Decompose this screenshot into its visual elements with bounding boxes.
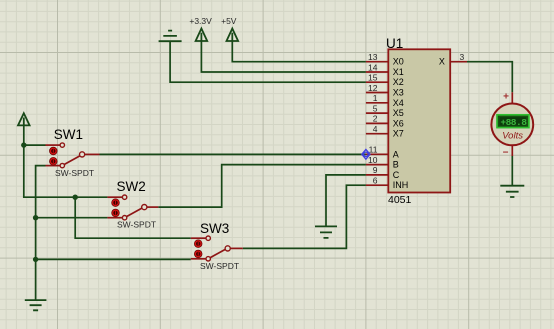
- U1 pin labels: [393, 57, 445, 191]
- junction node SW3 bottom throw: [33, 257, 38, 262]
- svg-text:X3: X3: [393, 88, 404, 98]
- svg-text:+3.3V: +3.3V: [189, 16, 212, 26]
- voltmeter display: [497, 115, 529, 128]
- SW2 bottom throw contact: [122, 216, 126, 220]
- wire SW2 pole to pin B: [158, 165, 366, 208]
- SW1 lever: [64, 156, 79, 164]
- svg-text:SW-SPDT: SW-SPDT: [117, 219, 156, 229]
- SW1 red stubs: [46, 145, 100, 166]
- svg-text:X5: X5: [393, 108, 404, 118]
- wire voltmeter minus to ground: [511, 156, 513, 186]
- svg-text:4051: 4051: [388, 194, 412, 206]
- svg-text:+88.8: +88.8: [500, 117, 527, 128]
- SW1 bottom throw contact: [60, 163, 64, 167]
- SW1 top throw contact: [60, 143, 64, 147]
- SW3 lever: [210, 249, 225, 257]
- SW3 pole contact: [225, 246, 230, 251]
- junction node vertical2 top: [73, 195, 78, 200]
- svg-text:X0: X0: [393, 57, 404, 67]
- SW2 pole contact: [142, 205, 147, 210]
- U1 pin stubs left: [366, 62, 467, 186]
- svg-text:X4: X4: [393, 98, 404, 108]
- wire pin C to ground: [326, 175, 366, 227]
- power arrow +5V: [227, 29, 239, 42]
- svg-text:15: 15: [368, 73, 378, 83]
- svg-text:SW2: SW2: [117, 179, 146, 194]
- SW1 toggle button up: [50, 147, 58, 155]
- U1 pin 3 stub right: [450, 61, 467, 63]
- svg-text:5: 5: [373, 103, 378, 113]
- wire +5V net to X0: [232, 41, 366, 62]
- svg-text:4: 4: [373, 124, 378, 134]
- SW3 toggle button down: [194, 250, 202, 258]
- svg-text:A: A: [393, 149, 399, 159]
- ground (below pin C): [315, 226, 337, 238]
- wire SW1 bottom throw to vertical3: [36, 166, 46, 301]
- wire vertical3 to SW2 bottom throw: [36, 217, 108, 219]
- voltmeter: [491, 92, 533, 159]
- junction node SW2 bottom throw: [33, 215, 38, 220]
- ground (under voltmeter): [500, 186, 524, 197]
- SW2 lever: [127, 208, 142, 216]
- svg-text:+: +: [503, 92, 509, 103]
- junction node SW1 top throw rail: [21, 142, 26, 147]
- SW3 toggle button up: [194, 240, 202, 248]
- svg-text:U1: U1: [386, 36, 403, 51]
- voltmeter body: [491, 104, 533, 146]
- SW1 toggle button down: [50, 158, 58, 166]
- svg-text:SW-SPDT: SW-SPDT: [55, 168, 94, 178]
- wire SW3 pole to pin INH: [243, 185, 366, 248]
- SW2 toggle button up: [112, 199, 120, 207]
- svg-text:Volts: Volts: [502, 131, 523, 142]
- voltmeter red stubs: [511, 92, 513, 156]
- U1 pin numbers: [368, 52, 378, 186]
- wire X output to voltmeter: [467, 62, 512, 92]
- svg-text:INH: INH: [393, 180, 409, 190]
- svg-text:10: 10: [368, 155, 378, 165]
- svg-text:6: 6: [373, 176, 378, 186]
- switch SW3: [191, 221, 243, 271]
- svg-text:1: 1: [373, 93, 378, 103]
- svg-text:X: X: [439, 57, 445, 67]
- SW2 top throw contact: [122, 195, 126, 199]
- wire left power rail vertical to SW1 top throw: [24, 125, 108, 198]
- svg-text:C: C: [393, 170, 400, 180]
- wire +3.3V net to X1: [201, 41, 366, 73]
- svg-text:−: −: [503, 148, 509, 159]
- IC U1 4051: [388, 49, 450, 192]
- wire junction A to SW1 top throw: [24, 144, 46, 146]
- svg-text:2: 2: [373, 114, 378, 124]
- svg-text:X7: X7: [393, 129, 404, 139]
- switch SW1: [46, 127, 100, 178]
- svg-text:13: 13: [368, 52, 378, 62]
- svg-text:X1: X1: [393, 67, 404, 77]
- ground (top, inverted): [159, 31, 182, 42]
- svg-text:SW1: SW1: [54, 127, 83, 142]
- svg-text:3: 3: [460, 52, 465, 62]
- SW2 toggle button down: [112, 209, 120, 217]
- wire SW1 pole to pin A: [100, 153, 366, 155]
- power arrow (left, unnamed): [18, 113, 30, 125]
- switch SW2: [107, 179, 158, 229]
- svg-text:+5V: +5V: [221, 16, 237, 26]
- ground (bottom left): [25, 300, 47, 310]
- svg-text:X2: X2: [393, 77, 404, 87]
- wire vertical2 down to SW3 top throw: [75, 197, 191, 238]
- origin marker (blue) at pin 11: [362, 149, 370, 159]
- svg-text:11: 11: [369, 145, 378, 155]
- svg-text:SW3: SW3: [200, 221, 229, 236]
- SW3 bottom throw contact: [206, 257, 210, 261]
- svg-text:14: 14: [368, 62, 378, 72]
- svg-text:SW-SPDT: SW-SPDT: [200, 261, 239, 271]
- SW3 top throw contact: [206, 236, 210, 240]
- svg-text:12: 12: [368, 83, 378, 93]
- svg-text:9: 9: [373, 165, 378, 175]
- svg-text:X6: X6: [393, 118, 404, 128]
- SW1 pole contact: [80, 152, 85, 157]
- wire top ground net to X2: [170, 41, 366, 82]
- wire vertical3 to SW3 bottom throw: [36, 258, 191, 260]
- svg-text:B: B: [393, 160, 399, 170]
- power arrow +3.3V: [196, 29, 208, 42]
